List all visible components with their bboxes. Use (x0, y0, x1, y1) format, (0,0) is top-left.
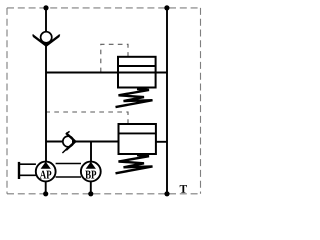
wire: upper flow line to tank (46, 72, 167, 74)
check valve V2 (inline, horizontal) (62, 131, 76, 153)
relief valve RV2 body (lower box) (119, 124, 156, 154)
wire: tank line T vertical (166, 8, 168, 194)
pilot line X1 (upper valve, dashed) (101, 44, 128, 71)
RV1 internal line (118, 65, 156, 67)
spring of RV2 (116, 155, 153, 173)
wire: BP drain to bottom port (90, 181, 92, 193)
port node B (top) (164, 5, 169, 10)
relief valve RV1 body (upper box) (118, 57, 156, 88)
wire: lower flow line (A to valve RV2) (46, 141, 119, 143)
port node A (top) (43, 5, 48, 10)
wire: branch to gauge BP (90, 142, 92, 162)
plugged test port cap (left of AP) (19, 162, 36, 179)
port node T (bottom) (164, 191, 169, 196)
gauge port BP (81, 162, 101, 182)
gauge port AP (36, 162, 56, 182)
label T (180, 185, 187, 193)
link lines between gauges AP and BP (56, 164, 81, 178)
check valve V1 (vertical) (33, 32, 60, 47)
port node AP drain (bottom) (43, 191, 48, 196)
wire: AP drain to bottom port (45, 181, 47, 193)
RV2 internal line (119, 132, 156, 134)
pilot line X2 (lower valve, dashed) (47, 112, 129, 124)
port node BP drain (bottom) (88, 191, 93, 196)
wire: RV2 outlet to tank line (156, 141, 167, 143)
subplate boundary (dashed enclosure) (7, 8, 201, 194)
spring of RV1 (116, 89, 153, 107)
wire: line A vertical (port A to gauge AP) (45, 8, 47, 162)
